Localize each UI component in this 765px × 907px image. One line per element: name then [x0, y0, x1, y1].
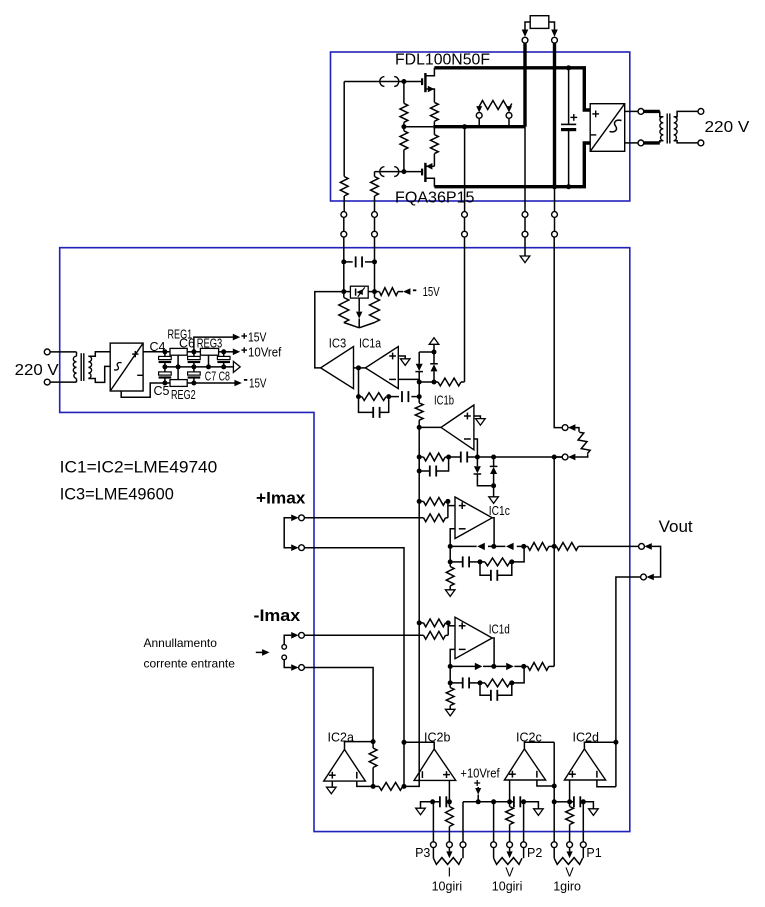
- blue enclosure: main control board outline: [60, 248, 630, 832]
- svg-text:REG1: REG1: [168, 327, 193, 341]
- wire line down from bottom-rail node: [554, 187, 556, 212]
- svg-text:IC2a: IC2a: [328, 731, 354, 745]
- potentiometer P2: [491, 842, 497, 848]
- inverter block U-PWR with sine and diagonal: [590, 104, 625, 152]
- gate connector symbols (top): [344, 81, 404, 83]
- resistor IC1c input upper: [419, 500, 423, 502]
- wire IC1a - input to clamp rail: [398, 379, 419, 382]
- wire thick mid rail (source node): [433, 125, 525, 128]
- op-amp IC1b: [441, 405, 474, 450]
- svg-text:FDL100N50F: FDL100N50F: [395, 51, 490, 68]
- up arrow symbol (supply): [433, 344, 435, 352]
- svg-text:10giri: 10giri: [432, 880, 463, 894]
- capacitor IC1c lower loop: [480, 562, 491, 575]
- wire gate columns into main board: [343, 237, 345, 292]
- svg-text:corrente entrante: corrente entrante: [144, 657, 236, 671]
- wire REG2 adj pin: [177, 367, 179, 380]
- svg-text:10Vref: 10Vref: [248, 346, 282, 360]
- resistor IC1d feedback: [480, 682, 485, 684]
- svg-text:IC1d: IC1d: [489, 623, 510, 637]
- wire Vout- down to IC2d: [616, 577, 641, 787]
- wire secondary top to bridge: [88, 352, 110, 356]
- wire to sense column: [461, 381, 465, 383]
- op-amp IC2a: [324, 750, 366, 782]
- wire inverter output top to plug: [625, 110, 638, 112]
- wire IC2c + input down: [509, 780, 511, 802]
- diode pair to ground (left, down): [476, 457, 478, 466]
- svg-text:+Imax: +Imax: [256, 489, 306, 508]
- wire thick jumper top: [644, 110, 660, 113]
- resistor P1 wiper feed: [569, 802, 571, 807]
- capacitor C5: [164, 367, 166, 372]
- svg-text:220 V: 220 V: [705, 119, 751, 136]
- resistor across plugs: [575, 428, 579, 432]
- wire IC2d + input down: [569, 780, 571, 802]
- sense plug left with down arrow: [476, 113, 482, 119]
- P3 group: capacitor and ground (left): [447, 799, 452, 804]
- terminal +Imax lower: [299, 545, 305, 551]
- wire thick positive rail from N-MOSFET drain: [434, 68, 590, 110]
- arrow +10Vref feed: [474, 782, 480, 784]
- capacitor C8: [223, 352, 225, 357]
- wire IC2b + input down: [448, 780, 450, 801]
- arrow +15V: [233, 334, 240, 341]
- potentiometer P1: [551, 842, 557, 848]
- wire IC1c output: [492, 518, 494, 547]
- svg-text:FQA36P15: FQA36P15: [395, 189, 475, 206]
- svg-text:IC1=IC2=LME49740: IC1=IC2=LME49740: [60, 459, 218, 477]
- wire rail to Vset plug: [467, 456, 562, 458]
- diode clamp right (up): [433, 352, 435, 363]
- wire rail joins Vout node line: [549, 665, 554, 667]
- wire IC2c - to output: [537, 780, 554, 786]
- resistor source P: [431, 135, 439, 154]
- svg-text:+10Vref: +10Vref: [460, 767, 500, 781]
- plug pair with external resistor (upper): [562, 425, 568, 431]
- resistor IC1b feedback: [419, 456, 423, 458]
- svg-text:C4: C4: [150, 340, 166, 354]
- svg-text:1giro: 1giro: [553, 880, 581, 894]
- wire plug column to ground arrow: [524, 237, 526, 256]
- bridge rectifier BR1: [110, 343, 143, 391]
- diode pair to ground (right, up): [493, 457, 495, 466]
- terminal 220V in top: [44, 349, 50, 355]
- ground arrow below top edge: [520, 256, 530, 263]
- wire thick jumper bottom: [644, 141, 660, 144]
- plug pair (lower): [562, 454, 568, 460]
- wire thick drop from right plug to bottom rail: [553, 43, 556, 187]
- terminal -Imax lower: [299, 665, 305, 671]
- resistor CS left: [343, 292, 345, 298]
- svg-text:Annullamento: Annullamento: [144, 636, 218, 650]
- svg-text:10giri: 10giri: [492, 880, 523, 894]
- wire long sense line to Vset plug: [554, 237, 562, 428]
- diode Vout rail 2 (left): [506, 543, 514, 550]
- resistor P2 wiper feed: [509, 802, 511, 807]
- svg-text:15V: 15V: [249, 377, 267, 391]
- wire IC2d output: [584, 742, 616, 749]
- wire IC2a - to rail: [357, 781, 373, 786]
- label -15V (supply stub): [413, 289, 416, 291]
- svg-text:IC3=LME49600: IC3=LME49600: [60, 486, 174, 504]
- wire IC1d - input: [450, 649, 455, 666]
- arrow annullamento: [256, 651, 263, 653]
- diode IC1d rail 1 (right): [475, 663, 483, 670]
- resistor source N: [431, 102, 439, 121]
- capacitor IC1c feedback row: [449, 546, 451, 562]
- wire +rail after bridge: [143, 351, 170, 353]
- svg-text:V: V: [505, 866, 514, 880]
- transformer T1 mains: [76, 352, 78, 356]
- sense plug right with down arrow: [506, 113, 512, 119]
- wire sense line down from mid rail: [464, 127, 466, 212]
- wire IC3 input junction: [354, 367, 366, 369]
- resistor IC1c to ground: [449, 562, 451, 567]
- resistor Vout rail 1: [528, 543, 549, 551]
- open arrow 0V: [233, 361, 240, 372]
- terminal -Imax upper: [299, 632, 305, 638]
- capacitor IC1b feedback: [449, 456, 461, 458]
- resistor CS right: [374, 292, 376, 298]
- op-amp IC2d: [564, 749, 605, 780]
- wire -rail through REG2: [158, 382, 170, 384]
- wire REG3 adj pin: [208, 355, 210, 367]
- svg-text:220 V: 220 V: [15, 362, 60, 379]
- wire thick negative rail from P-MOSFET drain: [434, 143, 590, 187]
- transistor FDL100N50F N-MOSFET Q1: [421, 78, 423, 85]
- wire Vout rail: [450, 545, 476, 547]
- wire summing node to IC1b rail: [418, 427, 420, 457]
- wire thick drop from left plug to mid rail: [523, 43, 526, 127]
- wire IC2a output: [345, 742, 374, 750]
- diode Vout rail 1 (left): [477, 543, 485, 550]
- capacitor C7: [193, 367, 195, 372]
- svg-text:IC1a: IC1a: [359, 337, 381, 351]
- wire IC1b + to ground: [474, 416, 481, 419]
- resistor IC1d input lower from -Imax: [424, 631, 446, 639]
- wire left outer gate line: [343, 82, 345, 177]
- plug circle right: [552, 37, 558, 43]
- resistor IC1d rail: [528, 663, 549, 671]
- wire + input stub: [448, 625, 455, 627]
- wire IC1c - input: [450, 529, 455, 547]
- wire +Imax upper line: [304, 517, 423, 519]
- resistor IC1a feedback: [359, 396, 362, 398]
- op-amp IC1c: [455, 497, 492, 539]
- op-amp IC1a: [365, 347, 398, 389]
- svg-text:C5: C5: [154, 384, 170, 398]
- wire summing line into IC2b -: [418, 623, 420, 781]
- wire sense column into main board: [464, 237, 466, 382]
- arrow current source output: [358, 298, 360, 311]
- plug circle left: [522, 37, 528, 43]
- wire IC1d rail: [450, 665, 475, 667]
- terminal Vout+: [639, 544, 645, 550]
- label +15V: [241, 335, 247, 337]
- wire REG1 adj pin: [177, 355, 179, 367]
- wire IC1b output: [419, 426, 441, 428]
- wire +rail REG1 to REG3: [187, 351, 200, 353]
- svg-text:REG3: REG3: [197, 337, 223, 351]
- capacitor IC1d lower loop: [480, 683, 491, 695]
- wire P3 left terminal up to cap node: [432, 802, 434, 842]
- wire summing node to IC1d: [418, 501, 420, 623]
- svg-text:15V: 15V: [248, 331, 267, 345]
- wire IC1d output: [492, 638, 494, 666]
- ground below diode pair: [493, 486, 495, 497]
- resistor IC1d input upper: [419, 622, 423, 624]
- arrow into left plug: [522, 30, 529, 37]
- svg-text:V: V: [565, 866, 574, 880]
- svg-text:Vout: Vout: [659, 517, 693, 536]
- wire line down from mid-rail/plug node: [524, 127, 526, 212]
- svg-text:IC1c: IC1c: [489, 504, 510, 518]
- resistor IC2a local feedback: [372, 742, 374, 748]
- diode clamp left (down): [418, 352, 420, 364]
- wire shunt right lead: [549, 22, 555, 30]
- svg-text:IC1b: IC1b: [434, 394, 454, 408]
- wire inverter output bottom to plug: [625, 142, 638, 144]
- diode IC1d rail 2 (right): [506, 663, 514, 670]
- resistor P3 wiper feed: [448, 802, 450, 807]
- resistor left inner: [371, 177, 379, 196]
- resistor to -15V: [375, 291, 380, 293]
- wire IC2b output: [404, 742, 434, 749]
- filter capacitor C bulk with + mark: [568, 68, 570, 125]
- terminal 220V out top: [698, 109, 704, 115]
- capacitor IC1b lower loop: [418, 457, 420, 471]
- transistor FQA36P15 P-MOSFET Q2: [421, 169, 423, 176]
- capacitor IC1a feedback: [389, 396, 399, 398]
- op-amp IC1d: [455, 617, 492, 659]
- arrow -15V: [234, 380, 241, 387]
- wire shunt left lead: [525, 22, 530, 30]
- wire clamp bottom rail: [419, 381, 438, 383]
- resistor left outer: [340, 177, 348, 196]
- wire IC2d - to output line: [597, 780, 616, 787]
- capacitor C6: [193, 352, 195, 357]
- op-amp IC2c: [504, 749, 545, 780]
- wire +10Vref rail to pots: [463, 801, 510, 803]
- capacitor IC1d feedback row: [449, 666, 451, 683]
- svg-text:IC3: IC3: [329, 337, 346, 351]
- resistor IC1c input lower from +Imax: [424, 514, 446, 522]
- wire summing node to IC1c: [418, 457, 420, 501]
- inter-board plug pairs: [341, 212, 347, 218]
- capacitor across gate lines: [344, 261, 353, 263]
- P2 group: capacitor and ground (right): [507, 799, 512, 804]
- svg-text:15V: 15V: [423, 285, 440, 299]
- label +10Vref: [241, 349, 247, 351]
- wire 0V mid rail: [165, 366, 233, 368]
- svg-text:-Imax: -Imax: [254, 606, 301, 625]
- wire +Imax lower to IC2b: [304, 548, 404, 743]
- potentiometer P3: [431, 842, 437, 848]
- wire Vout loop to lower terminal: [649, 546, 660, 577]
- arrow -15V feed: [403, 288, 410, 295]
- terminal 220V in bottom: [44, 379, 50, 385]
- gate connector symbols (bottom): [375, 171, 404, 173]
- svg-text:P3: P3: [415, 846, 430, 860]
- resistor bridging sense plugs: [479, 101, 512, 110]
- wire mid rail thin segment: [404, 126, 433, 128]
- regulator REG1: [170, 348, 187, 355]
- wire IC3 output to current source: [315, 292, 344, 368]
- terminal Vout-: [641, 574, 647, 580]
- wire bridge negative under-loop: [121, 383, 158, 397]
- op-amp IC3 buffer: [321, 347, 354, 389]
- arrow into right plug: [551, 30, 558, 37]
- resistor IC1c feedback: [485, 558, 510, 566]
- resistor gate divider lower: [400, 131, 408, 150]
- wire IC2c output: [524, 742, 554, 749]
- regulator REG3: [200, 348, 218, 355]
- svg-text:I: I: [448, 866, 451, 880]
- wire +Imax bracket: [284, 518, 291, 548]
- clamp rail top: [419, 351, 434, 353]
- wire IC1a + input to ground: [398, 356, 405, 359]
- wire +15V takeoff: [194, 337, 233, 352]
- terminal +Imax upper: [299, 515, 305, 521]
- P1 group: capacitor and ground (right): [554, 801, 569, 803]
- resistor feedback top right: [438, 378, 461, 386]
- label -15V: [244, 379, 247, 381]
- wire +10Vref rail out: [219, 351, 233, 353]
- wire to Vout terminal: [578, 545, 638, 547]
- capacitor IC1a lower loop: [359, 397, 374, 413]
- resistor Vout rail 2: [556, 543, 578, 551]
- switch annullamento: [284, 635, 291, 644]
- wire mains leads: [50, 351, 76, 353]
- svg-text:P1: P1: [586, 846, 601, 860]
- op-amp IC2b: [414, 749, 456, 780]
- arrow +10Vref: [233, 349, 240, 356]
- wire -Imax lower to IC2a: [304, 668, 373, 742]
- wire + input stub: [448, 505, 455, 507]
- blue enclosure: top power stage box: [331, 52, 630, 201]
- terminal 220V out bottom: [698, 140, 704, 146]
- svg-text:P2: P2: [527, 846, 542, 860]
- wire IC1a output node down: [358, 368, 360, 397]
- capacitor C4: [164, 352, 166, 357]
- svg-text:C7 C8: C7 C8: [205, 370, 230, 384]
- wire secondary bottom to bridge: [88, 366, 110, 382]
- wire left inner gate line: [374, 172, 376, 177]
- wire IC1b - to rail: [474, 439, 478, 457]
- current source box D-CS: [350, 286, 368, 298]
- svg-text:REG2: REG2: [171, 388, 196, 402]
- transformer T2 output: [660, 111, 664, 116]
- resistor IC1d to ground: [449, 683, 451, 688]
- regulator REG2: [170, 380, 187, 387]
- wire -Imax upper line: [304, 634, 423, 636]
- resistor between IC2a and IC2b: [373, 785, 379, 787]
- shunt resistor box at very top: [530, 16, 549, 29]
- resistor in summing line: [418, 382, 420, 403]
- wire IC2a + to ground: [331, 781, 333, 787]
- wire node down to Vout rail: [553, 457, 555, 546]
- resistor gate divider upper: [403, 82, 405, 104]
